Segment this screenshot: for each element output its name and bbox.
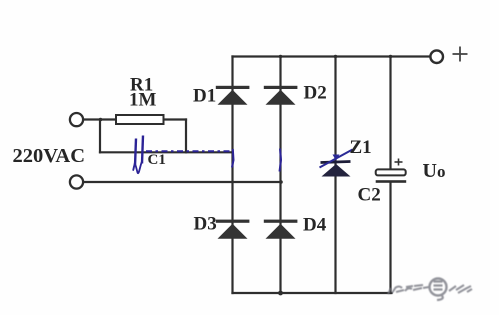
- svg-text:D3: D3: [194, 214, 217, 235]
- svg-text:220VAC: 220VAC: [13, 145, 86, 167]
- svg-text:1M: 1M: [129, 90, 157, 111]
- svg-text:D4: D4: [303, 215, 327, 236]
- svg-text:C2: C2: [358, 185, 381, 206]
- svg-text:U: U: [423, 160, 437, 182]
- svg-text:Z1: Z1: [350, 137, 372, 158]
- svg-text:D2: D2: [304, 83, 327, 104]
- svg-text:D1: D1: [193, 86, 216, 107]
- svg-text:o: o: [437, 162, 446, 181]
- svg-text:C1: C1: [148, 152, 166, 168]
